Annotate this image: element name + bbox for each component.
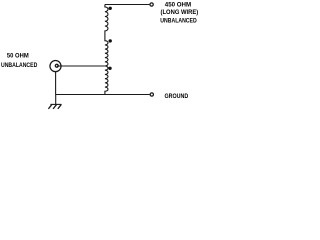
connector J1 coax jack outer	[50, 61, 61, 72]
wire ground stem	[55, 95, 57, 105]
tap dot lower	[108, 67, 111, 70]
wire top bus to 450-ohm terminal	[105, 4, 149, 6]
wire bottom bus to ground terminal	[56, 94, 150, 96]
terminal 450-ohm (open circle)	[150, 3, 153, 6]
svg-text:450 OHM: 450 OHM	[165, 2, 191, 9]
terminal ground (open circle)	[150, 93, 153, 96]
ground bar	[50, 103, 61, 105]
wire 50-ohm feed to coil tap	[57, 65, 105, 67]
tap dot top	[109, 7, 112, 10]
svg-text:UNBALANCED: UNBALANCED	[1, 63, 37, 70]
svg-text:(LONG WIRE): (LONG WIRE)	[161, 9, 199, 16]
wire connector drop	[55, 72, 57, 95]
ground symbol hatches	[49, 105, 61, 109]
connector J1 center pin	[55, 64, 58, 67]
inductor L1 (tapped coil, humps bulge right)	[105, 5, 108, 95]
svg-text:50 OHM: 50 OHM	[7, 52, 29, 59]
tap dot middle	[109, 39, 112, 42]
svg-text:GROUND: GROUND	[165, 94, 189, 100]
svg-text:UNBALANCED: UNBALANCED	[160, 18, 196, 25]
